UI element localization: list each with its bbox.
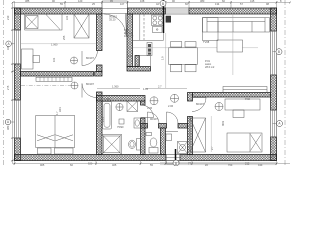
svg-text:TV08: TV08 (203, 40, 210, 44)
svg-text:405: 405 (112, 163, 117, 166)
svg-text:1.360: 1.360 (104, 97, 111, 101)
svg-text:L01: L01 (65, 15, 69, 20)
svg-text:760: 760 (228, 163, 233, 166)
svg-text:2.7: 2.7 (210, 146, 214, 150)
svg-text:101: 101 (52, 57, 56, 62)
svg-text:2.7: 2.7 (158, 85, 162, 89)
svg-text:275: 275 (6, 85, 10, 90)
svg-text:B: B (278, 50, 280, 54)
svg-text:255: 255 (62, 35, 66, 40)
svg-text:M03: M03 (221, 120, 225, 126)
svg-text:90/197: 90/197 (150, 117, 158, 121)
svg-text:1.05: 1.05 (143, 87, 149, 91)
svg-text:1.7: 1.7 (55, 111, 59, 115)
svg-text:75/90: 75/90 (117, 125, 124, 129)
svg-text:905: 905 (40, 163, 45, 166)
svg-text:1.060: 1.060 (51, 43, 58, 47)
svg-text:415: 415 (250, 0, 255, 3)
svg-text:212: 212 (245, 162, 250, 166)
svg-text:80/197: 80/197 (86, 56, 94, 60)
svg-text:2.15: 2.15 (101, 116, 105, 122)
svg-text:H01: H01 (58, 107, 62, 112)
svg-text:385: 385 (25, 0, 30, 3)
svg-text:80/197: 80/197 (86, 82, 94, 86)
svg-text:80/197: 80/197 (196, 102, 204, 106)
svg-text:1.05: 1.05 (128, 54, 134, 58)
svg-text:210: 210 (6, 15, 10, 20)
svg-text:2.06: 2.06 (168, 104, 174, 108)
svg-text:520: 520 (88, 162, 93, 166)
svg-text:35.20: 35.20 (109, 18, 116, 22)
svg-text:107: 107 (120, 2, 125, 6)
svg-text:340: 340 (258, 163, 263, 166)
svg-text:1.360: 1.360 (112, 85, 119, 89)
svg-text:28.6 m2: 28.6 m2 (205, 65, 215, 69)
svg-text:12.5 m2: 12.5 m2 (124, 34, 134, 38)
svg-text:3.06: 3.06 (147, 106, 153, 110)
svg-text:168: 168 (140, 0, 145, 3)
svg-text:1.9: 1.9 (161, 56, 165, 60)
svg-text:120: 120 (78, 0, 83, 3)
svg-text:380: 380 (200, 0, 205, 3)
svg-text:380: 380 (6, 125, 10, 130)
svg-text:134: 134 (215, 2, 220, 6)
svg-text:P.02: P.02 (245, 97, 251, 101)
